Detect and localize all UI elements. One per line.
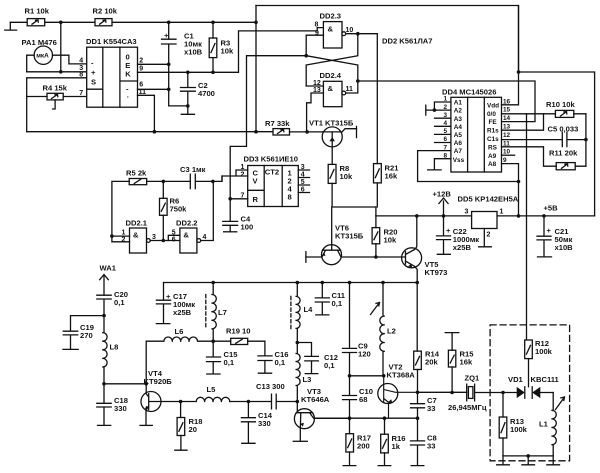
svg-text:7: 7: [79, 90, 83, 97]
svg-text:&: &: [133, 231, 139, 240]
resistor R5: [126, 169, 147, 185]
svg-text:A7: A7: [454, 148, 463, 155]
resistor R3: [209, 38, 234, 58]
wire R3 leads: [212, 22, 214, 72]
inductor L5: [181, 385, 230, 402]
wire DD2.4 pin13 to VT1 base: [307, 93, 324, 132]
capacitor C13: [248, 382, 297, 409]
wire DD4 pin7 to +5V: [418, 151, 519, 182]
node +12V C22: [442, 214, 446, 218]
resistor R2: [93, 7, 118, 26]
svg-text:33: 33: [427, 442, 435, 451]
svg-text:A5: A5: [454, 132, 463, 139]
svg-text:10k: 10k: [221, 47, 234, 56]
svg-text:C3 1мк: C3 1мк: [180, 165, 206, 174]
svg-text:KT920Б: KT920Б: [144, 377, 173, 386]
wire R5 left to DD2.1 inputs: [112, 181, 129, 236]
svg-text:R: R: [253, 195, 259, 204]
node ZQ1 R13 varicap: [501, 391, 505, 395]
node VT5 collector at rail: [415, 214, 419, 218]
node L2 top: [381, 281, 385, 285]
svg-text:A9: A9: [488, 153, 497, 160]
op-amp DD1 K554CA3: [79, 37, 146, 107]
node VT5 emitter: [415, 281, 419, 285]
resistor R6: [160, 197, 188, 216]
inductor L4: [291, 283, 313, 343]
svg-text:15: 15: [503, 107, 511, 114]
wire DD2.4 output up: [346, 81, 358, 93]
resistor R17: [346, 434, 371, 453]
capacitor C21: [537, 216, 573, 257]
svg-text:DD2.2: DD2.2: [176, 219, 198, 228]
transistor VT2: [378, 363, 418, 419]
capacitor C11: [315, 283, 345, 315]
svg-text:DD4 MC145026: DD4 MC145026: [442, 87, 496, 96]
svg-text:L2: L2: [387, 327, 396, 336]
node L4 top: [296, 281, 300, 285]
node L2 bottom VT2 base: [382, 374, 386, 378]
node VT1 base: [305, 130, 309, 134]
wire node to VT4 base riser: [104, 383, 146, 385]
svg-text:0,1: 0,1: [114, 298, 125, 307]
svg-text:R10 10k: R10 10k: [546, 100, 575, 109]
power +12V flag: [433, 190, 452, 216]
wire top supply line: [256, 6, 519, 73]
resistor R21: [374, 164, 400, 183]
wire DD2.2 out riser to C3: [201, 183, 214, 241]
svg-text:20: 20: [189, 425, 197, 434]
wire R12 bottom to varicap: [528, 359, 530, 387]
wire DD4 pin10 stub: [502, 154, 515, 156]
svg-text:6: 6: [139, 81, 143, 88]
capacitor C5: [502, 125, 586, 147]
gate DD2.4: [313, 71, 353, 107]
node R6 bottom: [162, 239, 166, 243]
svg-text:мкА: мкА: [36, 53, 49, 60]
wire R5 right to C3: [147, 180, 191, 182]
wire DD3 pin7 stub: [230, 198, 248, 200]
svg-text:1: 1: [122, 229, 126, 236]
wire module ground bus: [503, 455, 553, 457]
node VT4 base riser: [144, 382, 148, 386]
svg-text:x25B: x25B: [453, 243, 472, 252]
node R20 bottom: [374, 255, 378, 259]
varicap VD1 KBC111: [503, 375, 560, 398]
capacitor C14: [241, 402, 272, 444]
node antenna C19 L8: [102, 314, 106, 318]
capacitor C12: [305, 353, 338, 374]
svg-text:4: 4: [203, 234, 207, 241]
terminal bar R15 top: [445, 333, 459, 351]
counter DD3 K561IE10: [241, 155, 305, 207]
svg-text:10k: 10k: [384, 236, 397, 245]
svg-text:L5: L5: [207, 385, 217, 394]
wire DD2.4 pin12 stub: [306, 85, 323, 87]
svg-text:A6: A6: [454, 140, 463, 147]
svg-text:L6: L6: [175, 327, 184, 336]
wire pin2 stub: [138, 63, 169, 65]
node C7 C8: [416, 416, 420, 420]
node pin9 at +5V rail: [517, 214, 521, 218]
wire DD2.2 input stubs: [168, 235, 180, 240]
node L8 C18 VT4: [102, 382, 106, 386]
node R15 ZQ1: [450, 391, 454, 395]
svg-text:8: 8: [288, 193, 292, 202]
svg-text:KT315Б: KT315Б: [335, 232, 364, 241]
capacitor C15: [207, 341, 239, 374]
svg-text:A3: A3: [454, 116, 463, 123]
svg-text:C1s: C1s: [487, 136, 499, 143]
svg-text:S: S: [91, 77, 96, 86]
svg-text:FE: FE: [489, 119, 498, 126]
transistor VT3: [294, 387, 349, 441]
capacitor C17: [156, 283, 195, 324]
transistor VT1: [309, 118, 357, 164]
svg-text:KBC111: KBC111: [531, 375, 560, 384]
capacitor C10: [343, 376, 373, 418]
node pin9 pin7 tie: [517, 180, 521, 184]
wire R21 top to DD2.3 output: [376, 34, 378, 164]
capacitor C4: [223, 199, 253, 232]
capacitor C18: [97, 384, 128, 426]
wire R7 line left: [27, 131, 273, 133]
wire latch to counter reset: [230, 56, 306, 199]
terminal bar DD4 pin2: [425, 105, 427, 115]
svg-text:C5 0,033: C5 0,033: [548, 125, 579, 134]
svg-text:L8: L8: [110, 343, 119, 352]
node C1 top: [167, 21, 171, 25]
wire DD2.3 output: [346, 33, 378, 35]
gate DD2.2: [172, 219, 207, 254]
svg-text:200: 200: [357, 442, 370, 451]
wire supply over to right edge: [519, 72, 595, 216]
wire DD4 pin1 pin2 tied: [426, 102, 451, 110]
wire VT2 collector to ZQ1: [418, 391, 467, 393]
svg-text:R1s: R1s: [487, 128, 499, 135]
IC DD4 MC145026: [442, 87, 511, 172]
wire R19 leads: [213, 341, 265, 356]
svg-text:120: 120: [358, 350, 371, 359]
antenna WA1: [100, 264, 117, 296]
svg-text:R19 10: R19 10: [226, 327, 251, 336]
svg-text:3: 3: [465, 209, 469, 216]
wire R6 leads: [162, 181, 164, 240]
node VT4 collector L5 R18: [179, 400, 183, 404]
node VT2 collector line: [416, 391, 420, 395]
inductor L3: [296, 343, 311, 402]
wire pin9 output line: [138, 28, 324, 73]
node riser at R7 wire: [254, 130, 258, 134]
wire DD4 pin8 Vss ground: [428, 159, 451, 170]
svg-text:0,1: 0,1: [275, 358, 286, 367]
wire R16 leads ground: [378, 418, 391, 465]
wire pin11 feedback: [138, 95, 155, 131]
svg-text:K: K: [125, 70, 131, 79]
svg-text:CT2: CT2: [265, 167, 279, 176]
inductor L2: [371, 283, 396, 376]
node VT2 emitter: [383, 416, 387, 420]
svg-text:0,1: 0,1: [224, 358, 235, 367]
node L7 top: [211, 281, 215, 285]
resistor R13: [499, 417, 527, 438]
wire DD2.3 pin9 loop: [306, 35, 323, 56]
capacitor C9: [343, 283, 371, 376]
wire DD2.4 out to DD4 pin14 bracket: [358, 81, 535, 122]
svg-text:L7: L7: [218, 308, 227, 317]
node pin1-pin2 tie: [433, 108, 437, 112]
svg-text:VD1: VD1: [508, 375, 524, 384]
svg-text:L4: L4: [304, 305, 314, 314]
svg-text:DD2.1: DD2.1: [126, 219, 148, 228]
node module ground: [526, 454, 530, 458]
wire emitter rail: [164, 282, 418, 284]
svg-text:330: 330: [258, 419, 271, 428]
ground module center: [522, 456, 535, 465]
svg-text:8: 8: [79, 71, 83, 78]
svg-text:4700: 4700: [198, 89, 215, 98]
wire DD3 output stubs: [298, 170, 309, 193]
wire DD4 pin16 from supply: [502, 6, 519, 105]
resistor R10: [546, 100, 575, 117]
node top rail to R7 junction riser: [254, 21, 258, 25]
node pin11 on R7 wire: [153, 130, 157, 134]
node L3 C13 VT3 base: [296, 400, 300, 404]
node C9 C10 VT2 base: [348, 374, 352, 378]
wire Dout riser to R12: [526, 114, 528, 340]
wire PA1 left lead to pin3 line: [27, 55, 34, 72]
svg-text:16k: 16k: [460, 358, 473, 367]
wire top rail: [10, 21, 256, 23]
wire DD3 pins 1-2: [222, 170, 248, 181]
node C13 C14 L5: [247, 400, 251, 404]
resistor R1: [25, 7, 50, 26]
gate DD2.1: [122, 219, 157, 254]
svg-text:Vss: Vss: [453, 157, 465, 164]
resistor R14: [414, 350, 440, 370]
wire R10 jog to pin13: [502, 114, 544, 130]
node latch R output: [304, 54, 308, 58]
svg-text:WA1: WA1: [100, 264, 117, 273]
wire R15 bottom: [451, 367, 453, 393]
wire DD2.1 input stubs: [112, 236, 130, 242]
inductor L6: [146, 327, 213, 384]
node pin3 junction: [59, 70, 63, 74]
svg-text:10: 10: [346, 27, 354, 34]
svg-text:2: 2: [241, 171, 245, 178]
svg-text:3: 3: [152, 234, 156, 241]
wire C3 node to DD3 pin2: [213, 176, 222, 181]
capacitor C16: [258, 350, 288, 373]
resistor R20: [372, 228, 397, 245]
svg-text:750k: 750k: [170, 205, 188, 214]
wire DD2.1 out to DD2.2: [150, 240, 168, 242]
wire riser rail to R7 wire: [255, 6, 257, 132]
inductor L1: [539, 393, 565, 456]
svg-text:VT1 KT315Б: VT1 KT315Б: [309, 118, 354, 127]
svg-text:R5 2k: R5 2k: [126, 169, 147, 178]
svg-text:·: ·: [127, 92, 130, 101]
node R6 top: [162, 180, 166, 184]
node R3 bottom: [211, 71, 215, 75]
svg-text:PA1 M476: PA1 M476: [22, 38, 57, 47]
terminal bar VT6 emitter: [305, 252, 307, 263]
resistor R16: [381, 434, 406, 453]
svg-text:R2 10k: R2 10k: [93, 7, 118, 16]
wire R4 left: [27, 96, 47, 98]
wire R10 leads: [544, 113, 586, 115]
wire DD4 pin15 R10 line: [502, 113, 544, 115]
svg-text:14: 14: [503, 115, 511, 122]
svg-text:+12B: +12B: [433, 190, 452, 199]
wire R8 bottom to VT6 base node: [332, 183, 376, 207]
resistor R11: [549, 149, 578, 170]
terminal bar VT1 collector: [356, 126, 358, 137]
resistor R12: [525, 339, 553, 359]
svg-text:A8: A8: [488, 161, 497, 168]
svg-text:100k: 100k: [510, 425, 528, 434]
svg-text:10k: 10k: [340, 172, 353, 181]
svg-text:100: 100: [241, 223, 254, 232]
node C3 right: [211, 180, 215, 184]
wire R7 right to VT1 base: [290, 131, 323, 133]
svg-text:A1: A1: [454, 100, 463, 107]
ground C2: [181, 106, 194, 114]
node C5 right: [584, 138, 588, 142]
svg-text:x10B: x10B: [184, 48, 203, 57]
svg-text:+: +: [164, 31, 169, 40]
wire R11 leads to pin11: [502, 147, 586, 166]
resistor R4: [43, 83, 68, 109]
svg-text:0,1: 0,1: [324, 361, 335, 370]
wire VT2 base: [350, 375, 384, 377]
regulator DD5 KP142EH5A: [458, 194, 519, 238]
capacitor C19: [63, 316, 104, 350]
svg-text:R4 15k: R4 15k: [43, 83, 68, 92]
svg-text:+: +: [547, 226, 552, 235]
svg-text:DD1 K554CA3: DD1 K554CA3: [86, 37, 137, 46]
ground DD5 pin2: [479, 229, 492, 247]
capacitor C8: [411, 418, 437, 465]
resistor R18: [177, 417, 202, 436]
crystal ZQ1: [448, 374, 503, 413]
svg-text:RS: RS: [488, 144, 498, 151]
svg-text:KT973: KT973: [425, 268, 448, 277]
wire R14 leads: [416, 283, 418, 393]
svg-text:DD2 K561ЛA7: DD2 K561ЛA7: [382, 37, 433, 46]
dashed module box: [490, 325, 569, 461]
node C11 top: [321, 281, 325, 285]
meter PA1: [22, 38, 57, 64]
node DD3 reset pin7: [228, 197, 232, 201]
node +5V: [542, 214, 546, 218]
svg-text:&: &: [328, 25, 334, 34]
capacitor C3: [180, 165, 213, 189]
transistor VT5: [376, 216, 447, 283]
node DD2.4 output: [356, 79, 360, 83]
wire RC right vertical: [585, 114, 587, 166]
svg-text:8: 8: [315, 21, 319, 28]
svg-text:R1 10k: R1 10k: [25, 7, 50, 16]
svg-text:2: 2: [139, 58, 143, 65]
node pin2 to C1 ground line: [167, 63, 171, 67]
svg-text:KT368A: KT368A: [387, 371, 416, 380]
svg-text:330: 330: [114, 404, 127, 413]
wire R17 leads ground: [343, 418, 356, 465]
wire R1R2 junction down to DD1 pin3: [60, 22, 62, 72]
inductor L7: [206, 283, 227, 342]
wire pin3 line: [27, 71, 87, 73]
capacitor C1: [162, 22, 203, 64]
node DD2.1 inputs: [110, 234, 114, 238]
wire VT2 emitter node: [314, 417, 418, 419]
svg-text:ZQ1: ZQ1: [465, 374, 481, 383]
svg-text:DD2.4: DD2.4: [320, 71, 342, 80]
svg-text:26,945МГц: 26,945МГц: [448, 403, 487, 412]
ground module right: [547, 456, 560, 465]
svg-text:0/0: 0/0: [487, 111, 496, 118]
svg-text:2: 2: [487, 232, 491, 239]
capacitor C7: [411, 392, 437, 418]
terminal bar left: [5, 22, 17, 30]
svg-text:R11 20k: R11 20k: [549, 149, 578, 158]
svg-text:11: 11: [346, 86, 354, 93]
wire R4 right to pin7: [63, 96, 86, 98]
resistor R7: [265, 119, 290, 135]
svg-text:KT646A: KT646A: [301, 395, 330, 404]
svg-text:270: 270: [80, 331, 93, 340]
svg-text:x25B: x25B: [173, 308, 192, 317]
wire pin8 loop: [27, 78, 87, 132]
resistor R15: [448, 350, 474, 368]
svg-text:+: +: [446, 226, 451, 235]
svg-text:12: 12: [503, 132, 511, 139]
svg-text:9: 9: [139, 66, 143, 73]
svg-text:&: &: [183, 231, 189, 240]
resistor R19: [226, 327, 251, 345]
transistor VT6: [306, 207, 376, 265]
svg-text:6: 6: [172, 236, 176, 243]
wire latch cross coupling: [306, 34, 358, 86]
svg-text:20k: 20k: [425, 358, 438, 367]
node DD2.3 output: [356, 32, 360, 36]
wire R13 leads: [502, 393, 504, 456]
node supply corner: [517, 70, 521, 74]
node R17 C10: [348, 416, 352, 420]
svg-text:DD2.3: DD2.3: [320, 12, 342, 21]
wire R20 leads: [375, 216, 377, 257]
svg-text:16k: 16k: [385, 172, 398, 181]
wire +12V rail: [376, 215, 595, 217]
capacitor C2: [181, 72, 215, 106]
resistor R8: [328, 164, 353, 183]
wire DD4 pin9 to +5V: [502, 164, 519, 216]
svg-text:x10B: x10B: [555, 243, 574, 252]
svg-text:DD3 K561ИE10: DD3 K561ИE10: [244, 155, 298, 164]
node R3 top: [211, 21, 215, 25]
inductor L8: [103, 316, 119, 384]
svg-text:A4: A4: [454, 124, 463, 131]
capacitor C22: [437, 216, 480, 254]
svg-text:L1: L1: [539, 420, 549, 429]
svg-text:100k: 100k: [535, 347, 553, 356]
svg-text:33: 33: [427, 404, 435, 413]
svg-text:+5B: +5B: [544, 204, 559, 213]
svg-text:R7 33k: R7 33k: [265, 119, 290, 128]
wire DD4 left pin stubs 3-7: [435, 118, 451, 142]
wire C1 ground vertical: [169, 64, 188, 106]
svg-text:68: 68: [359, 395, 367, 404]
wire PA1 right lead to pin4: [53, 55, 87, 64]
